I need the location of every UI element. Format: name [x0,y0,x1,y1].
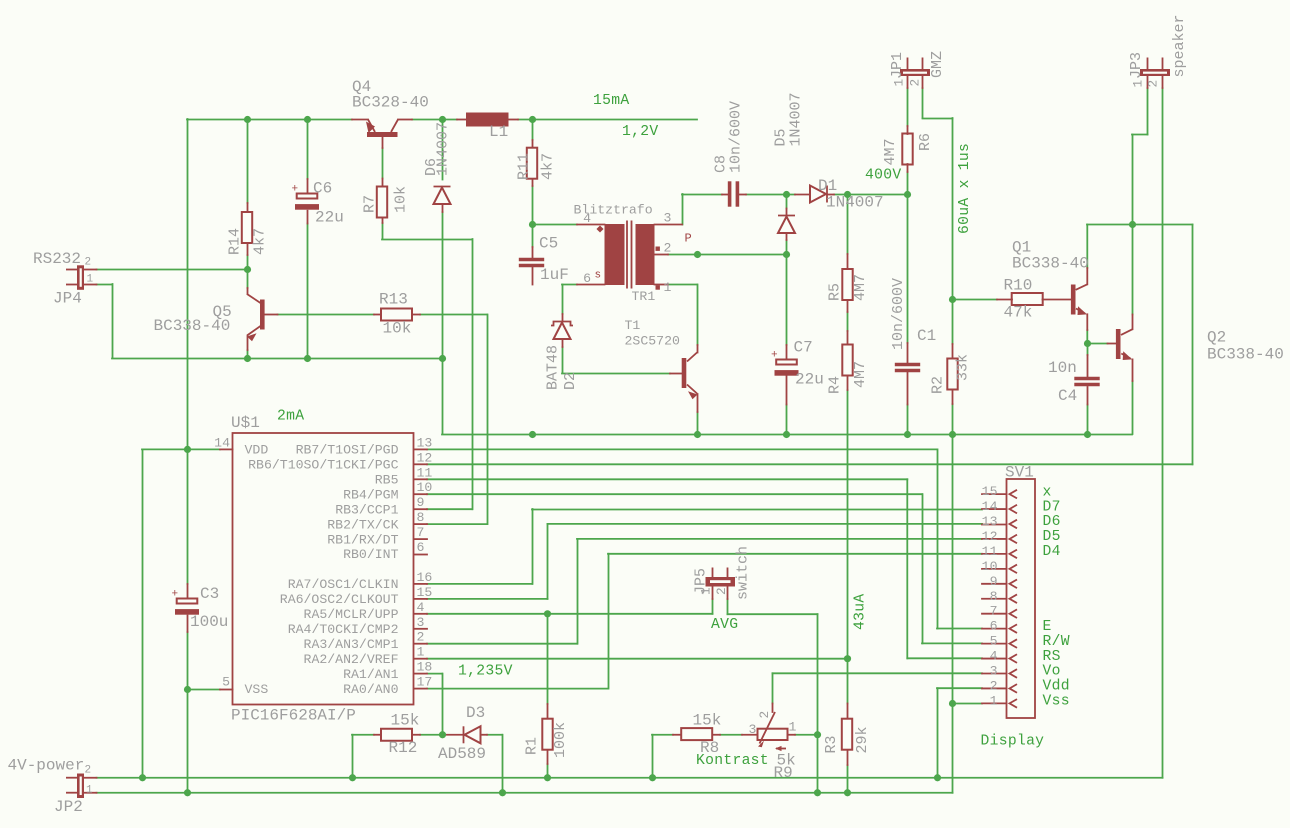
svg-text:400V: 400V [865,168,901,184]
svg-text:switch: switch [735,546,752,600]
svg-text:D3: D3 [466,704,485,722]
svg-text:BC338-40: BC338-40 [1207,346,1284,364]
svg-text:3: 3 [664,211,672,226]
svg-text:2: 2 [85,765,92,777]
svg-text:R/W: R/W [1043,634,1070,650]
svg-text:E: E [1043,619,1052,635]
svg-text:15: 15 [417,585,433,600]
svg-text:22u: 22u [795,371,824,389]
svg-text:BC338-40: BC338-40 [1012,255,1089,273]
svg-text:5: 5 [222,675,230,690]
svg-text:8: 8 [417,510,425,525]
svg-text:3: 3 [749,722,757,737]
svg-text:C1: C1 [917,327,936,345]
svg-text:2: 2 [664,241,672,256]
svg-text:Vo: Vo [1043,664,1061,680]
svg-text:10n/600V: 10n/600V [728,101,745,173]
svg-text:2: 2 [417,630,425,645]
svg-text:10n/600V: 10n/600V [890,278,907,350]
svg-text:RB7/T1OSI/PGD: RB7/T1OSI/PGD [296,443,399,458]
svg-text:C5: C5 [539,235,558,253]
svg-text:1: 1 [990,693,998,708]
svg-text:11: 11 [982,544,998,559]
svg-text:1: 1 [417,645,425,660]
svg-text:4V-power: 4V-power [8,757,85,775]
svg-text:C4: C4 [1058,387,1077,405]
svg-text:RA7/OSC1/CLKIN: RA7/OSC1/CLKIN [288,577,399,592]
svg-text:2: 2 [990,678,998,693]
svg-text:33k: 33k [955,354,972,381]
svg-text:11: 11 [417,465,433,480]
svg-text:R7: R7 [362,195,379,213]
svg-text:14: 14 [214,435,230,450]
svg-text:43uA: 43uA [853,594,869,630]
svg-text:13: 13 [982,514,998,529]
svg-text:15k: 15k [693,712,722,730]
svg-text:2: 2 [1146,80,1161,88]
svg-text:JP4: JP4 [53,290,82,308]
svg-text:1: 1 [789,720,797,735]
svg-text:Vss: Vss [1043,694,1070,710]
svg-text:+: + [172,589,179,601]
svg-text:TR1: TR1 [632,289,656,304]
svg-text:29k: 29k [854,726,871,753]
svg-text:RA6/OSC2/CLKOUT: RA6/OSC2/CLKOUT [280,592,399,607]
svg-text:SV1: SV1 [1005,464,1034,482]
svg-text:1N4007: 1N4007 [788,92,805,146]
svg-text:1: 1 [1131,80,1146,88]
svg-text:R1: R1 [524,737,541,755]
svg-text:2: 2 [757,711,772,719]
svg-text:7: 7 [990,604,998,619]
svg-text:10k: 10k [393,186,410,213]
svg-text:D4: D4 [1043,544,1061,560]
svg-text:7: 7 [417,525,425,540]
svg-text:P: P [685,232,692,246]
svg-text:D1: D1 [818,177,837,195]
svg-text:1N4007: 1N4007 [826,194,884,212]
svg-text:RA2/AN2/VREF: RA2/AN2/VREF [304,652,399,667]
svg-text:6: 6 [583,271,591,286]
svg-text:2: 2 [85,257,92,269]
svg-text:9: 9 [990,574,998,589]
svg-text:D6: D6 [1043,514,1061,530]
svg-text:2mA: 2mA [277,409,304,425]
svg-text:R10: R10 [1004,277,1033,295]
svg-text:RB6/T10SO/T1CKI/PGC: RB6/T10SO/T1CKI/PGC [248,458,398,473]
svg-text:RB4/PGM: RB4/PGM [343,487,398,502]
svg-text:RS: RS [1043,649,1061,665]
svg-text:C7: C7 [794,339,813,357]
svg-text:4: 4 [990,649,998,664]
svg-text:4M7: 4M7 [882,138,899,165]
svg-text:U$1: U$1 [231,414,260,432]
svg-text:L1: L1 [489,123,508,141]
svg-text:10: 10 [417,480,433,495]
svg-text:Display: Display [981,734,1045,750]
svg-text:47k: 47k [1004,304,1033,322]
svg-text:1: 1 [699,587,714,595]
svg-text:10n: 10n [1048,359,1077,377]
svg-text:16: 16 [417,570,433,585]
svg-text:RA1/AN1: RA1/AN1 [343,667,398,682]
svg-text:1: 1 [664,280,672,295]
svg-text:BC328-40: BC328-40 [352,94,429,112]
svg-text:RB0/INT: RB0/INT [343,547,398,562]
svg-text:100k: 100k [552,722,569,758]
svg-text:RA4/T0CKI/CMP2: RA4/T0CKI/CMP2 [288,622,399,637]
svg-text:D5: D5 [1043,529,1061,545]
svg-text:D2: D2 [562,372,579,390]
svg-text:13: 13 [417,435,433,450]
svg-text:C3: C3 [200,585,219,603]
svg-text:100u: 100u [190,613,228,631]
svg-text:R6: R6 [917,133,934,151]
svg-text:BAT48: BAT48 [545,345,562,390]
svg-text:R11: R11 [516,153,533,180]
svg-text:1: 1 [892,79,907,87]
svg-text:2: 2 [908,79,923,87]
svg-text:5: 5 [990,634,998,649]
svg-text:2: 2 [714,587,729,595]
svg-text:s: s [595,270,602,282]
svg-text:6: 6 [990,619,998,634]
svg-text:6: 6 [417,540,425,555]
svg-text:2SC5720: 2SC5720 [625,334,680,349]
svg-text:R13: R13 [379,291,408,309]
svg-text:RS232: RS232 [33,250,81,268]
svg-text:Kontrast: Kontrast [696,753,769,769]
svg-text:R3: R3 [823,735,840,753]
svg-text:1N4007: 1N4007 [435,122,452,176]
svg-text:9: 9 [417,495,425,510]
svg-text:AVG: AVG [711,617,738,633]
svg-text:15k: 15k [391,712,420,730]
svg-text:PIC16F628AI/P: PIC16F628AI/P [231,707,356,725]
svg-text:8: 8 [990,589,998,604]
svg-text:12: 12 [417,450,433,465]
svg-text:RB2/TX/CK: RB2/TX/CK [327,517,398,532]
svg-text:R12: R12 [389,739,418,757]
svg-text:1,2V: 1,2V [622,124,658,140]
svg-text:speaker: speaker [1171,14,1188,77]
svg-text:AD589: AD589 [438,745,486,763]
svg-text:C6: C6 [313,180,332,198]
svg-text:4k7: 4k7 [540,153,557,180]
svg-text:x: x [1043,484,1052,500]
svg-text:+: + [771,350,778,362]
svg-text:R14: R14 [227,228,244,255]
svg-text:4k7: 4k7 [252,228,269,255]
svg-text:15: 15 [982,484,998,499]
svg-text:Vdd: Vdd [1043,679,1070,695]
svg-text:JP3: JP3 [1128,52,1145,79]
svg-text:RB1/RX/DT: RB1/RX/DT [327,532,398,547]
svg-text:RA3/AN3/CMP1: RA3/AN3/CMP1 [304,637,399,652]
svg-text:17: 17 [417,675,433,690]
svg-text:D7: D7 [1043,499,1061,515]
svg-text:22u: 22u [315,209,344,227]
svg-text:R9: R9 [774,764,793,782]
svg-text:3: 3 [417,615,425,630]
svg-text:RB5: RB5 [375,473,399,488]
svg-text:4: 4 [417,600,425,615]
svg-text:R2: R2 [930,376,947,394]
svg-text:4: 4 [583,211,591,226]
svg-text:T1: T1 [625,318,641,333]
svg-text:15mA: 15mA [593,93,629,109]
svg-text:VDD: VDD [245,443,269,458]
svg-text:1: 1 [86,785,93,797]
svg-text:1uF: 1uF [540,266,569,284]
svg-text:BC338-40: BC338-40 [154,317,231,335]
svg-text:Q2: Q2 [1207,329,1226,347]
svg-text:1,235V: 1,235V [458,664,513,680]
svg-text:R5: R5 [827,283,844,301]
svg-text:10: 10 [982,559,998,574]
svg-text:4M7: 4M7 [852,361,869,388]
svg-text:GMZ: GMZ [929,51,946,78]
svg-text:JP2: JP2 [54,798,83,816]
svg-text:+: + [292,184,299,196]
svg-text:18: 18 [417,660,433,675]
svg-text:1: 1 [87,274,94,286]
svg-text:4M7: 4M7 [852,274,869,301]
svg-text:R4: R4 [827,376,844,394]
svg-text:60uA x 1us: 60uA x 1us [957,143,973,234]
svg-text:JP1: JP1 [889,52,906,79]
svg-text:3: 3 [990,664,998,679]
svg-text:RB3/CCP1: RB3/CCP1 [335,502,398,517]
svg-text:10k: 10k [383,320,412,338]
svg-text:RA5/MCLR/UPP: RA5/MCLR/UPP [304,607,399,622]
svg-text:14: 14 [982,499,998,514]
svg-text:RA0/AN0: RA0/AN0 [343,682,398,697]
svg-text:VSS: VSS [245,682,269,697]
svg-text:12: 12 [982,529,998,544]
